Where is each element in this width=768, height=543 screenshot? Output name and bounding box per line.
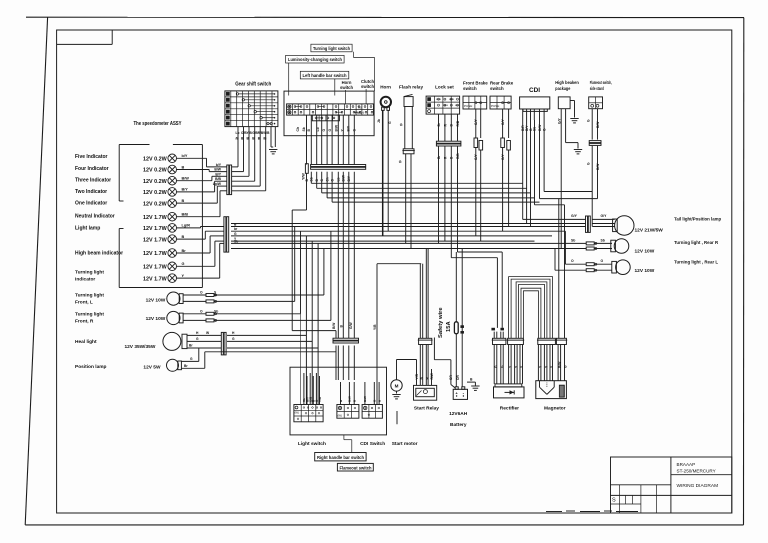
svg-text:Five Indicator: Five Indicator [75, 154, 108, 160]
connector: speedometer-gear (8pin) [227, 165, 232, 195]
border: inner drawing frame [57, 30, 732, 513]
label: clutch switch [361, 79, 374, 104]
svg-text:Ch: Ch [296, 127, 300, 132]
svg-text:G: G [190, 357, 193, 361]
label: horn switch [340, 80, 353, 104]
border: zone box top-left [57, 30, 113, 44]
svg-text:12V 10W: 12V 10W [146, 297, 166, 303]
svg-text:G/Y: G/Y [601, 214, 608, 218]
svg-text:B/W: B/W [596, 121, 600, 128]
svg-text:G/Y: G/Y [571, 214, 578, 218]
indicator lamp 10 (12V 1.7W) [143, 262, 184, 271]
start relay [414, 385, 440, 411]
svg-text:Heal light: Heal light [75, 339, 97, 345]
svg-text:Turning light: Turning light [75, 312, 104, 318]
svg-text:B: B [182, 235, 185, 239]
callout: right handle bar switch [315, 435, 366, 461]
svg-text:B/W: B/W [363, 396, 367, 402]
svg-text:Horn: Horn [380, 85, 391, 90]
svg-text:Light switch: Light switch [298, 441, 326, 447]
light switch / cdi switch enclosure [290, 367, 387, 435]
svg-text:(W): (W) [295, 411, 300, 415]
svg-text:b/Y: b/Y [216, 163, 222, 167]
rectifier [494, 384, 525, 412]
svg-text:Luminosity-changing switch: Luminosity-changing switch [288, 57, 342, 62]
svg-text:Turning light , Rear L: Turning light , Rear L [674, 260, 718, 265]
svg-text:G: G [400, 123, 403, 127]
wires: battery [373, 249, 480, 405]
svg-text:PUSH: PUSH [491, 104, 499, 108]
indicator lamp 3 (12V 0.2W) [143, 176, 189, 185]
svg-text:G/Y: G/Y [501, 119, 505, 125]
svg-text:Lb: Lb [236, 131, 240, 135]
svg-text:CDI: CDI [529, 87, 540, 94]
svg-text:G/Y: G/Y [474, 154, 478, 160]
CDI unit [520, 87, 550, 131]
svg-text:15A: 15A [446, 321, 452, 332]
svg-text:switch: switch [463, 86, 477, 91]
annotation dashes bottom [546, 510, 638, 513]
svg-text:R/W: R/W [430, 372, 434, 379]
svg-text:12V 1.7W: 12V 1.7W [143, 265, 168, 271]
svg-text:G: G [196, 337, 199, 341]
svg-text:R/B: R/B [456, 120, 460, 126]
indicator labels [75, 154, 123, 370]
front brake switch [463, 81, 488, 242]
gear shift switch [225, 82, 278, 127]
svg-text:G/Y: G/Y [474, 119, 478, 125]
svg-text:B: B [182, 165, 185, 169]
svg-text:12V 1.7W: 12V 1.7W [143, 215, 168, 221]
safety wire label [438, 307, 452, 338]
svg-text:B/W: B/W [348, 396, 352, 402]
wires: bus drops to light switch connector [295, 227, 331, 405]
left handle bar switch contact table [287, 104, 374, 121]
svg-text:B/W: B/W [558, 361, 562, 368]
svg-text:B: B [182, 199, 185, 203]
svg-text:S: S [612, 498, 616, 504]
svg-text:B/W: B/W [214, 168, 221, 172]
svg-text:Lock set: Lock set [435, 85, 454, 90]
svg-text:Y/B: Y/B [373, 324, 377, 330]
svg-text:12V 0.2W: 12V 0.2W [143, 201, 168, 207]
left handle bar switch enclosure [284, 91, 374, 136]
wires into switch grids [302, 373, 381, 405]
svg-text:Neutral Indicator: Neutral Indicator [75, 214, 115, 220]
svg-text:Two Indicator: Two Indicator [75, 189, 107, 195]
wires: mid vertical drops to light switch connector [332, 322, 359, 380]
ground: gear shift switch [269, 127, 277, 154]
svg-text:12V 0.2W: 12V 0.2W [143, 168, 168, 174]
svg-text:Right handle bar switch: Right handle bar switch [317, 455, 364, 460]
svg-text:12V 35W/35W: 12V 35W/35W [124, 344, 155, 350]
svg-text:G: G [234, 232, 237, 236]
indicator lamp 2 (12V 0.2W) [143, 165, 184, 174]
svg-text:G/Y: G/Y [557, 118, 561, 124]
turning light front R lamp [146, 309, 331, 324]
wire labels below gear switch [236, 131, 271, 140]
svg-text:G: G [232, 337, 235, 341]
svg-text:O: O [200, 309, 203, 313]
callout: luminosity-changing switch [286, 55, 345, 95]
indicator lamp 6 (12V 1.7W) [143, 212, 188, 221]
svg-text:B/B: B/B [215, 177, 221, 181]
svg-text:12V 10W: 12V 10W [635, 268, 655, 274]
svg-text:Y/W: Y/W [302, 173, 306, 180]
svg-text:Left handle bar switch: Left handle bar switch [303, 73, 347, 78]
svg-text:Tail light/Position lamp: Tail light/Position lamp [674, 217, 721, 222]
svg-text:One Indicator: One Indicator [75, 201, 107, 207]
magnetor [536, 381, 567, 412]
svg-text:B/W: B/W [334, 124, 338, 131]
flameout switch, side stand connector [587, 80, 612, 227]
wires: horn drops [383, 110, 389, 235]
svg-text:12V 0.2W: 12V 0.2W [143, 157, 168, 163]
svg-text:Lg/R: Lg/R [182, 224, 191, 228]
svg-text:12V 10W: 12V 10W [635, 248, 655, 254]
wires: magnetor tubes [537, 338, 568, 380]
svg-text:B/W: B/W [332, 322, 336, 329]
svg-text:Gear shift switch: Gear shift switch [235, 82, 271, 88]
turning light rear L [555, 231, 718, 274]
callout: left handle bar switch [300, 71, 349, 95]
svg-text:12V 21W/5W: 12V 21W/5W [635, 228, 664, 234]
wires: handle drops to lower area [292, 172, 354, 339]
svg-text:Sb: Sb [571, 238, 575, 242]
title block [611, 457, 732, 513]
wire labels below handle bar switch [296, 124, 357, 131]
svg-text:PUSH: PUSH [355, 111, 365, 115]
svg-text:Flameout switch: Flameout switch [340, 465, 372, 470]
svg-text:package: package [555, 86, 570, 91]
wires: handle bar switch drops [307, 115, 355, 164]
svg-text:Light lamp: Light lamp [75, 226, 100, 232]
indicator lamp 7 (12V 1.7W) [143, 224, 190, 233]
wire bus band middle (main harness) [231, 227, 586, 328]
svg-text:Battery: Battery [450, 422, 467, 428]
wires: CDI drops [523, 120, 598, 227]
svg-text:12V 1.7W: 12V 1.7W [143, 251, 168, 257]
svg-text:G/W: G/W [349, 322, 353, 329]
wires: start relay [377, 249, 434, 386]
svg-text:OR: OR [456, 375, 460, 380]
connector: handle bar harness (horizontal) [302, 164, 366, 180]
svg-text:side stand: side stand [590, 86, 604, 91]
high beaken package [555, 80, 582, 249]
svg-text:BRAAAP: BRAAAP [677, 462, 696, 467]
svg-text:G: G [494, 365, 498, 368]
svg-text:Br: Br [182, 249, 187, 253]
svg-text:G: G [501, 365, 505, 368]
rear brake switch [490, 81, 514, 232]
position lamp [143, 348, 336, 371]
svg-text:High beaken: High beaken [555, 80, 579, 85]
svg-text:Sb: Sb [601, 238, 605, 242]
indicator lamp 1 (12V 0.2W) [143, 154, 188, 163]
svg-text:B/B: B/B [182, 213, 189, 217]
lock set (ignition switch) [426, 85, 460, 115]
light switch connector grid [294, 405, 326, 448]
callout: flameout switch (bottom) [337, 463, 373, 471]
svg-text:(W): (W) [338, 414, 343, 418]
indicator lamp 8 (12V 1.7W) [143, 235, 184, 244]
svg-text:12V 5W: 12V 5W [143, 365, 161, 371]
svg-text:Sb: Sb [302, 127, 306, 131]
battery 12V6AH [449, 387, 468, 428]
svg-text:12V 1.7W: 12V 1.7W [143, 226, 168, 232]
horn [377, 85, 392, 125]
callout: turning light switch [311, 44, 375, 91]
svg-text:Start motor: Start motor [392, 441, 418, 447]
svg-text:G: G [587, 119, 591, 122]
svg-text:The speedometer ASSY: The speedometer ASSY [134, 121, 183, 127]
indicator lamp 9 (12V 1.7W) [143, 249, 186, 258]
svg-text:Start Relay: Start Relay [414, 406, 439, 412]
wires: rectifier tubes [492, 328, 525, 384]
svg-text:B/Y: B/Y [182, 188, 189, 192]
svg-text:12V6AH: 12V6AH [449, 411, 468, 417]
svg-text:Flameout switch,: Flameout switch, [590, 80, 612, 85]
connector: speedometer-main (6pin) [224, 217, 229, 252]
svg-text:CDI Switch: CDI Switch [360, 441, 385, 447]
svg-text:High beam indicator: High beam indicator [75, 251, 123, 257]
svg-text:12V 1.7W: 12V 1.7W [143, 276, 168, 282]
svg-text:G/Y: G/Y [501, 154, 505, 160]
svg-text:B/Y: B/Y [215, 172, 221, 176]
svg-text:Front, L: Front, L [75, 300, 93, 306]
svg-text:12V 0.2W: 12V 0.2W [143, 190, 168, 196]
svg-text:12V 10W: 12V 10W [146, 316, 166, 322]
svg-text:Three Indicator: Three Indicator [75, 178, 111, 184]
wire labels under harness connector [305, 174, 351, 181]
svg-text:W/B: W/B [263, 131, 270, 135]
svg-text:OR: OR [449, 375, 453, 380]
svg-text:O: O [601, 259, 604, 263]
indicator lamp 11 (12V 1.7W) [143, 274, 184, 283]
wire bundle speedometer to gear-shift switch [177, 127, 266, 217]
svg-text:switch: switch [490, 86, 504, 91]
svg-text:Position lamp: Position lamp [75, 364, 107, 370]
svg-text:switch: switch [361, 84, 374, 89]
svg-text:switch: switch [340, 85, 353, 90]
wires: flash relay drops [406, 154, 411, 249]
wires: flameout routing to magnetor [544, 192, 592, 339]
svg-text:Rear Brake: Rear Brake [490, 81, 514, 86]
tail light / position lamp [231, 214, 721, 235]
svg-text:PUSH: PUSH [464, 104, 472, 108]
svg-text:G: G [182, 262, 185, 266]
svg-text:Front Brake: Front Brake [463, 81, 488, 86]
wire bus band upper [311, 172, 539, 202]
svg-text:Turning light: Turning light [75, 293, 104, 299]
speedometer ASSY enclosure [119, 121, 202, 288]
svg-text:Jb: Jb [377, 119, 381, 123]
svg-text:Sb: Sb [214, 309, 218, 313]
turning light rear R [571, 238, 719, 254]
start motor [391, 360, 418, 448]
svg-text:Magnetor: Magnetor [544, 406, 566, 412]
svg-text:Y/R: Y/R [415, 373, 419, 379]
svg-text:G: G [587, 162, 591, 165]
svg-text:G: G [328, 129, 332, 132]
svg-text:O: O [200, 291, 203, 295]
svg-text:12V 0.2W: 12V 0.2W [143, 179, 168, 185]
flash relay [399, 85, 424, 165]
svg-text:O: O [322, 129, 326, 132]
cdi switch connector grid B [337, 405, 385, 448]
svg-text:G: G [399, 160, 402, 164]
cdi switch connector grid C [362, 405, 382, 419]
wires: lock set drops [436, 114, 461, 258]
svg-text:Lg/W: Lg/W [213, 182, 222, 186]
svg-text:O: O [571, 259, 574, 263]
svg-text:Y/R: Y/R [318, 396, 322, 402]
wires: indicator lamps 7-11 to main connector [177, 223, 239, 279]
svg-text:Safety wire: Safety wire [438, 307, 444, 338]
svg-text:Rectifier: Rectifier [500, 406, 519, 412]
svg-text:Front, R: Front, R [75, 319, 94, 325]
svg-text:B/W: B/W [596, 163, 600, 170]
svg-text:ST-250/MERCURY: ST-250/MERCURY [677, 468, 716, 473]
wires: magnetor arches [509, 277, 553, 339]
indicator lamp 5 (12V 0.2W) [143, 199, 184, 208]
svg-text:Four Indicator: Four Indicator [75, 166, 109, 172]
svg-text:Indicator: Indicator [75, 277, 95, 283]
svg-text:WIRING DIAGRAM: WIRING DIAGRAM [677, 483, 719, 489]
svg-text:Flash relay: Flash relay [399, 85, 423, 90]
svg-text:Turning light , Rear R: Turning light , Rear R [674, 240, 719, 245]
svg-text:b/Y: b/Y [182, 154, 188, 158]
svg-text:Turning light switch: Turning light switch [313, 46, 350, 51]
svg-text:Turning light: Turning light [75, 270, 104, 276]
svg-text:12V 1.7W: 12V 1.7W [143, 237, 168, 243]
turning light front L lamp [146, 291, 324, 306]
svg-text:M: M [395, 384, 399, 389]
svg-text:G: G [564, 365, 568, 368]
heal light lamp [124, 331, 318, 355]
indicator lamp 4 (12V 0.2W) [143, 188, 188, 197]
svg-text:B/W: B/W [182, 177, 190, 181]
